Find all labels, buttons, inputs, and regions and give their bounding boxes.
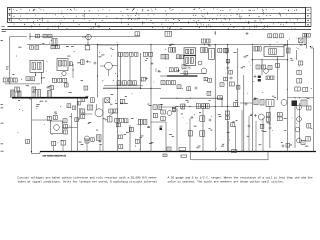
svg-text:power transistor chassis heat: power transistor chassis heat sink [43,153,67,157]
svg-text:A.C0 gauge and 5 to 1/2 C. ran: A.C0 gauge and 5 to 1/2 C. ranges. Where… [168,175,313,179]
svg-text:taken at signal conditions. Vo: taken at signal conditions. Volts for li… [18,179,158,183]
svg-text:value is omitted. The scale ar: value is omitted. The scale are members … [168,179,285,183]
svg-text:Circuit voltages are taken wit: Circuit voltages are taken within tolera… [18,175,158,179]
